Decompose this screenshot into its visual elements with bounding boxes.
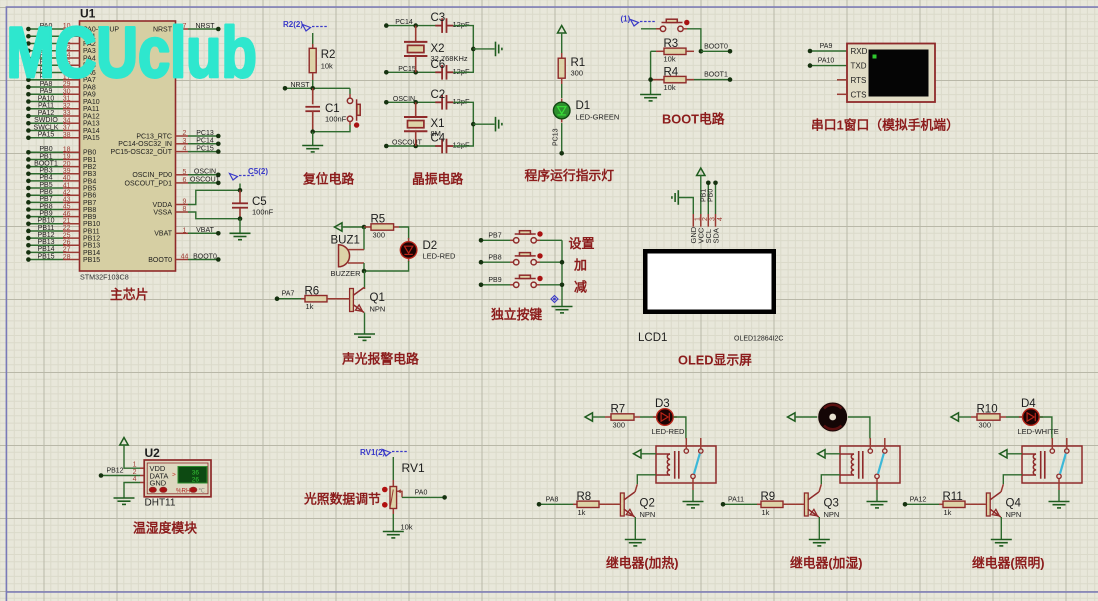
svg-text:PB12: PB12: [37, 232, 54, 239]
svg-text:PA13: PA13: [83, 121, 100, 128]
svg-text:TXD: TXD: [851, 62, 867, 71]
U1 pin 28 PB15 / net PB15: [28, 259, 63, 261]
U1 pin 27 PB14 / net PB14: [28, 251, 63, 253]
svg-text:R9: R9: [761, 491, 776, 503]
wire coil to transistor collector: [1003, 475, 1022, 485]
svg-text:独立按键: 独立按键: [491, 307, 542, 322]
rail R3-R4: [650, 51, 652, 94]
ground reset: [302, 146, 323, 152]
svg-text:C3: C3: [431, 12, 446, 24]
wire motor to relay contact: [848, 417, 870, 439]
svg-text:R2(2): R2(2): [283, 20, 303, 29]
svg-text:33: 33: [63, 110, 71, 117]
svg-text:4: 4: [133, 476, 137, 483]
svg-text:PC13_RTC: PC13_RTC: [136, 133, 172, 140]
U1 pin 38 PA15 / net PA15: [28, 137, 63, 139]
svg-text:C2: C2: [431, 89, 446, 101]
U1 pin 40 PB4 / net PB4: [28, 180, 63, 182]
U1 pin 8 VSSA wire: [176, 211, 189, 213]
crystal X1: [415, 102, 417, 117]
svg-text:10k: 10k: [664, 83, 676, 92]
svg-text:SWDIO: SWDIO: [34, 117, 58, 124]
LED D2 LED-RED: [408, 238, 410, 262]
svg-text:OSCIN: OSCIN: [393, 96, 415, 103]
svg-text:RTS: RTS: [851, 76, 867, 85]
svg-text:NPN: NPN: [1006, 510, 1022, 519]
U1 pin 11 PA1 / net PA1: [28, 35, 63, 37]
wire power to R7: [593, 416, 606, 418]
svg-text:C5: C5: [252, 196, 267, 208]
svg-text:U2: U2: [145, 446, 161, 460]
svg-text:主芯片: 主芯片: [110, 287, 148, 302]
svg-text:PB5: PB5: [83, 185, 96, 192]
svg-text:10k: 10k: [664, 55, 676, 64]
svg-text:BOOT1: BOOT1: [34, 160, 58, 167]
svg-text:42: 42: [63, 189, 71, 196]
wire PB8 button to rail: [536, 261, 540, 263]
wire arrow to coil: [1007, 453, 1022, 455]
svg-text:PA11: PA11: [728, 496, 744, 503]
svg-text:R5: R5: [371, 214, 386, 226]
wire to ground right: [473, 48, 494, 50]
svg-text:PB1: PB1: [701, 189, 708, 202]
LED D4 LED-WHITE: [1019, 416, 1043, 418]
svg-text:PB7: PB7: [39, 196, 52, 203]
svg-text:Q1: Q1: [370, 292, 385, 304]
U1 pin 42 PB6 / net PB6: [28, 194, 63, 196]
svg-text:OSCOUT_PD1: OSCOUT_PD1: [125, 180, 173, 187]
capacitor C3: [435, 18, 453, 33]
node right rail: [471, 122, 476, 127]
svg-text:300: 300: [373, 231, 386, 240]
svg-text:28: 28: [63, 254, 71, 261]
relay 继电器(照明): [1022, 446, 1082, 483]
svg-text:PB11: PB11: [83, 228, 100, 235]
U1 pin 19 PB1 / net PB1: [28, 158, 63, 160]
svg-text:300: 300: [571, 69, 584, 78]
resistor R2: [312, 44, 314, 48]
svg-text:LED-RED: LED-RED: [652, 427, 686, 436]
ground below C5: [230, 233, 251, 239]
capacitor C4: [435, 139, 453, 154]
resistor R11: [905, 503, 939, 505]
wire R10 to D4: [1006, 416, 1022, 418]
svg-text:SWCLK: SWCLK: [34, 124, 59, 131]
svg-text:1: 1: [133, 462, 137, 469]
svg-text:STM32F103C8: STM32F103C8: [80, 273, 129, 282]
svg-text:PB0: PB0: [39, 146, 52, 153]
svg-text:5: 5: [183, 169, 187, 176]
svg-text:PB10: PB10: [83, 221, 100, 228]
wire button to BOOT0 node: [683, 28, 687, 30]
U1 pin 3 PC14-OSC32_IN / net PC14: [176, 143, 189, 145]
svg-text:Q3: Q3: [824, 498, 839, 510]
svg-text:PA10: PA10: [818, 58, 835, 65]
net label C5(2): [230, 174, 238, 181]
svg-text:减: 减: [574, 280, 587, 295]
svg-text:PB13: PB13: [37, 239, 54, 246]
node NRST junction: [310, 86, 315, 91]
svg-text:BOOT1: BOOT1: [704, 72, 728, 79]
wire to ground: [312, 132, 314, 146]
U1 pin 46 PB9 / net PB9: [28, 216, 63, 218]
node PC14 junction: [413, 23, 418, 28]
potentiometer RV1: [392, 480, 394, 487]
svg-text:PA10: PA10: [38, 95, 55, 102]
svg-text:PB4: PB4: [39, 175, 52, 182]
wire coil to transistor collector: [637, 475, 656, 485]
svg-text:PB3: PB3: [83, 171, 96, 178]
svg-text:R1: R1: [571, 57, 586, 69]
wire power to VDD: [124, 445, 140, 468]
terminal screen: [869, 50, 929, 97]
svg-text:光照数据调节: 光照数据调节: [303, 492, 381, 507]
svg-text:PB1: PB1: [83, 157, 96, 164]
U1 pin 44 BOOT0 / net BOOT0: [176, 259, 189, 261]
svg-text:D4: D4: [1021, 398, 1036, 410]
U1 pin 34 PA13 / net SWDIO: [28, 122, 63, 124]
node OSCIN junction: [413, 100, 418, 105]
transistor Q4 NPN: [986, 493, 990, 516]
node R5 left: [362, 225, 367, 230]
power arrow relay coil: [1000, 450, 1008, 458]
net PB8 wire: [481, 261, 510, 263]
svg-text:NPN: NPN: [824, 510, 840, 519]
op-amp U1 body (STM32F103C8): [80, 21, 176, 271]
svg-text:BUZ1: BUZ1: [331, 235, 360, 247]
net PC13 wire: [561, 123, 563, 153]
svg-text:PB15: PB15: [83, 257, 100, 264]
wire power to R5: [342, 226, 364, 228]
svg-text:OSCOUT: OSCOUT: [190, 177, 221, 184]
svg-text:PB0: PB0: [708, 189, 715, 202]
U1 pin 2 PC13_RTC / net PC13: [176, 135, 189, 137]
U1 pin 15 PA5 / net PA5: [28, 64, 63, 66]
svg-text:PC14-OSC32_IN: PC14-OSC32_IN: [118, 141, 172, 148]
capacitor C2: [435, 95, 453, 110]
svg-text:R7: R7: [611, 404, 626, 416]
power arrow OLED VCC: [697, 168, 705, 176]
svg-text:8: 8: [183, 206, 187, 213]
push button reset: [347, 98, 360, 121]
node PC15 junction: [413, 70, 418, 75]
net PB1 wire SCL: [707, 183, 709, 214]
svg-text:20: 20: [63, 161, 71, 168]
svg-text:PB6: PB6: [83, 193, 96, 200]
svg-text:32: 32: [63, 103, 71, 110]
hidden power marker: [551, 296, 558, 303]
svg-text:PB12: PB12: [83, 236, 100, 243]
wire power to R10: [959, 416, 972, 418]
svg-text:C6: C6: [431, 59, 446, 71]
svg-text:PB5: PB5: [39, 182, 52, 189]
svg-text:PC15-OSC32_OUT: PC15-OSC32_OUT: [111, 149, 173, 156]
terminal cursor: [873, 55, 877, 59]
wire to R2 top: [312, 33, 314, 48]
resistor R1: [561, 53, 563, 58]
wire R1 to D1: [561, 84, 563, 98]
net PA10 wire: [810, 65, 847, 67]
U1 pin 30 PA9 / net PA9: [28, 93, 63, 95]
svg-text:R6: R6: [305, 285, 320, 297]
node collector: [362, 269, 367, 274]
svg-text:PA9: PA9: [83, 92, 96, 99]
U1 pin 21 PB10 / net PB10: [28, 223, 63, 225]
svg-text:2: 2: [133, 469, 137, 476]
svg-text:41: 41: [63, 182, 71, 189]
svg-text:DHT11: DHT11: [145, 498, 176, 509]
push button PB7: [514, 231, 537, 243]
svg-text:12pF: 12pF: [453, 20, 471, 29]
wire node to Q1 collector: [364, 271, 366, 288]
transistor Q2 NPN: [620, 493, 624, 516]
ground right: [496, 117, 502, 132]
svg-text:LED-RED: LED-RED: [423, 252, 457, 261]
svg-text:PC15: PC15: [398, 66, 416, 73]
resistor R5: [364, 226, 371, 228]
ground relay contact: [1049, 502, 1070, 508]
net PB9 wire: [481, 284, 510, 286]
node R4 left: [648, 77, 653, 82]
svg-text:VSSA: VSSA: [153, 209, 172, 216]
crystal X2: [415, 26, 417, 42]
push button PB8: [514, 253, 537, 265]
wire coil to transistor collector: [821, 475, 840, 485]
svg-text:PB14: PB14: [83, 250, 100, 257]
wire GND pin to ground: [124, 483, 140, 499]
svg-text:LED-GREEN: LED-GREEN: [576, 113, 620, 122]
svg-text:25: 25: [63, 232, 71, 239]
svg-text:R10: R10: [977, 404, 998, 416]
relay 继电器(加热): [656, 446, 716, 483]
svg-text:SDA: SDA: [711, 228, 720, 243]
wire relay common to ground: [876, 490, 878, 502]
DHT11 pin stubs: [140, 467, 144, 469]
svg-text:4: 4: [183, 146, 187, 153]
terminal pin RTS stub: [837, 79, 847, 81]
svg-text:300: 300: [979, 421, 992, 430]
svg-text:PB2: PB2: [83, 164, 96, 171]
svg-text:加: 加: [573, 258, 587, 273]
power arrow R10 row: [951, 413, 959, 421]
wire power to motor: [795, 416, 818, 418]
svg-text:复位电路: 复位电路: [302, 172, 354, 187]
svg-text:PB6: PB6: [39, 189, 52, 196]
U1 pin 10 PA0-WKUP / net PA0: [28, 28, 63, 30]
U1 pin 31 PA10 / net PA10: [28, 101, 63, 103]
svg-text:PB9: PB9: [39, 210, 52, 217]
ground Q2: [625, 540, 646, 546]
U1 pin 9 VDDA wire: [176, 204, 189, 206]
svg-text:1: 1: [183, 227, 187, 234]
svg-text:PC13: PC13: [553, 128, 560, 146]
capacitor C1: [312, 88, 314, 104]
svg-text:声光报警电路: 声光报警电路: [341, 352, 419, 367]
net PB0 wire SDA: [715, 183, 717, 214]
resistor R7: [605, 416, 611, 418]
svg-text:D1: D1: [576, 100, 591, 112]
wire PB7 button to rail: [536, 239, 540, 241]
wire D4 to relay contact: [1039, 417, 1052, 439]
net BOOT1 wire: [694, 79, 730, 81]
node OSCOUT junction: [413, 144, 418, 149]
net BOOT0 wire: [701, 50, 730, 52]
svg-text:43: 43: [63, 197, 71, 204]
node C1 bottom: [310, 129, 315, 134]
svg-text:39: 39: [63, 168, 71, 175]
svg-text:C1: C1: [325, 103, 340, 115]
wire Q4 emitter to ground: [1000, 517, 1002, 540]
svg-text:4: 4: [717, 217, 724, 221]
svg-text:R8: R8: [577, 491, 592, 503]
virtual terminal body: [847, 44, 935, 103]
svg-text:45: 45: [63, 204, 71, 211]
svg-text:PB14: PB14: [37, 246, 54, 253]
svg-text:PC13: PC13: [196, 130, 214, 137]
svg-text:10k: 10k: [401, 523, 413, 532]
svg-text:9: 9: [183, 199, 187, 206]
svg-text:LCD1: LCD1: [638, 332, 667, 344]
svg-text:27: 27: [63, 247, 71, 254]
U2 green display: [178, 467, 207, 484]
svg-text:继电器(加湿): 继电器(加湿): [790, 556, 863, 571]
net OSCOUT wire: [386, 145, 436, 147]
svg-text:继电器(照明): 继电器(照明): [972, 556, 1045, 571]
svg-text:2: 2: [183, 130, 187, 137]
wire arrow to coil: [825, 453, 840, 455]
svg-text:300: 300: [613, 421, 626, 430]
wire RV1 to ground: [392, 514, 394, 532]
svg-text:PB8: PB8: [83, 207, 96, 214]
power arrow DHT11: [120, 438, 128, 446]
ground relay contact: [867, 502, 888, 508]
U1 pin 17 PA7 / net PA7: [28, 79, 63, 81]
svg-text:PA14: PA14: [83, 128, 100, 135]
U1 pin 14 PA4 / net PA4: [28, 57, 63, 59]
resistor R3: [656, 50, 664, 52]
svg-text:程序运行指示灯: 程序运行指示灯: [525, 168, 615, 183]
svg-text:温湿度模块: 温湿度模块: [133, 521, 197, 536]
svg-text:CTS: CTS: [851, 90, 867, 99]
node right rail: [471, 47, 476, 52]
svg-text:PA0: PA0: [415, 489, 428, 496]
svg-text:设置: 设置: [569, 236, 595, 251]
node rail PB8: [560, 260, 565, 265]
transistor Q3 NPN: [804, 493, 808, 516]
svg-text:PB0: PB0: [83, 150, 96, 157]
svg-text:PA11: PA11: [83, 106, 99, 113]
svg-text:RV1: RV1: [402, 461, 425, 475]
ground DHT11: [114, 498, 135, 504]
svg-text:26: 26: [192, 477, 200, 484]
svg-text:OSCOUT: OSCOUT: [392, 140, 423, 147]
ground Q3: [809, 540, 830, 546]
svg-text:12pF: 12pF: [453, 97, 471, 106]
svg-text:D3: D3: [655, 398, 670, 410]
wire button to bottom node: [349, 122, 351, 126]
push button PB9: [514, 275, 537, 287]
svg-text:37: 37: [63, 125, 71, 132]
svg-text:NPN: NPN: [370, 305, 386, 314]
svg-text:R3: R3: [664, 38, 679, 50]
wire D3 to relay contact: [673, 417, 686, 439]
U1 pin 5 OSCIN_PD0 / net OSCIN: [176, 174, 189, 176]
svg-text:VBAT: VBAT: [196, 227, 214, 234]
svg-text:C5(2): C5(2): [248, 167, 268, 176]
U1 pin 13 PA3 / net PA3: [28, 50, 63, 52]
wire Q3 emitter to ground: [818, 517, 820, 540]
svg-text:PB3: PB3: [39, 168, 52, 175]
svg-text:R2: R2: [321, 49, 336, 61]
U1 pin 16 PA6 / net PA6: [28, 72, 63, 74]
svg-text:>: >: [172, 472, 176, 479]
svg-text:NPN: NPN: [640, 510, 656, 519]
wire C2 to right rail: [453, 102, 473, 124]
ground relay contact: [683, 502, 704, 508]
svg-text:PC14: PC14: [196, 138, 214, 145]
svg-text:38: 38: [63, 132, 71, 139]
wire R5 to D2: [399, 227, 409, 239]
svg-text:100nF: 100nF: [325, 115, 347, 124]
wire R3 left to rail: [651, 50, 656, 52]
node C5 bottom: [238, 216, 243, 221]
wire NRST to button: [349, 88, 351, 94]
svg-text:OSCIN_PD0: OSCIN_PD0: [132, 172, 172, 179]
svg-text:PB7: PB7: [83, 200, 96, 207]
svg-text:GND: GND: [150, 479, 167, 488]
svg-text:PA12: PA12: [38, 110, 55, 117]
node rail PB9: [560, 283, 565, 288]
net PB7 wire: [481, 239, 510, 241]
U1 pin 1 VBAT / net VBAT: [176, 232, 189, 234]
LED D3 LED-RED: [653, 416, 677, 418]
svg-text:X1: X1: [431, 118, 445, 130]
power arrow relay coil: [818, 450, 826, 458]
U1 pin 39 PB3 / net PB3: [28, 173, 63, 175]
relay 继电器(加湿): [840, 446, 900, 483]
svg-text:PC15: PC15: [196, 145, 214, 152]
net PC14 wire: [386, 25, 436, 27]
U1 pin 32 PA11 / net PA11: [28, 108, 63, 110]
wire R7 to D3: [640, 416, 656, 418]
wire to ground right: [473, 123, 494, 125]
U1 pin 6 OSCOUT_PD1 / net OSCOUT: [176, 182, 189, 184]
svg-text:46: 46: [63, 211, 71, 218]
wire VCC pin 2: [700, 176, 702, 215]
svg-text:PB1: PB1: [39, 153, 52, 160]
keys common rail: [561, 240, 563, 306]
U1 pin 12 PA2 / net PA2: [28, 43, 63, 45]
wire to boot button: [641, 28, 660, 30]
svg-text:6: 6: [183, 177, 187, 184]
svg-text:26: 26: [63, 239, 71, 246]
svg-text:PA11: PA11: [38, 103, 54, 110]
buzzer BUZ1: [363, 227, 365, 250]
wire C3 to right rail: [453, 26, 473, 49]
svg-text:RXD: RXD: [851, 47, 868, 56]
svg-text:RV1(2): RV1(2): [360, 448, 386, 457]
wire D2 to node: [364, 261, 409, 271]
ground BOOT: [640, 95, 661, 101]
svg-text:D2: D2: [423, 240, 438, 252]
svg-text:PB8: PB8: [488, 254, 501, 261]
net PA9 wire: [810, 50, 847, 52]
net label R2(2): [303, 25, 311, 32]
svg-text:PB9: PB9: [83, 214, 96, 221]
svg-text:18: 18: [63, 147, 71, 154]
svg-text:PA9: PA9: [820, 43, 833, 50]
svg-text:PA8: PA8: [546, 496, 559, 503]
